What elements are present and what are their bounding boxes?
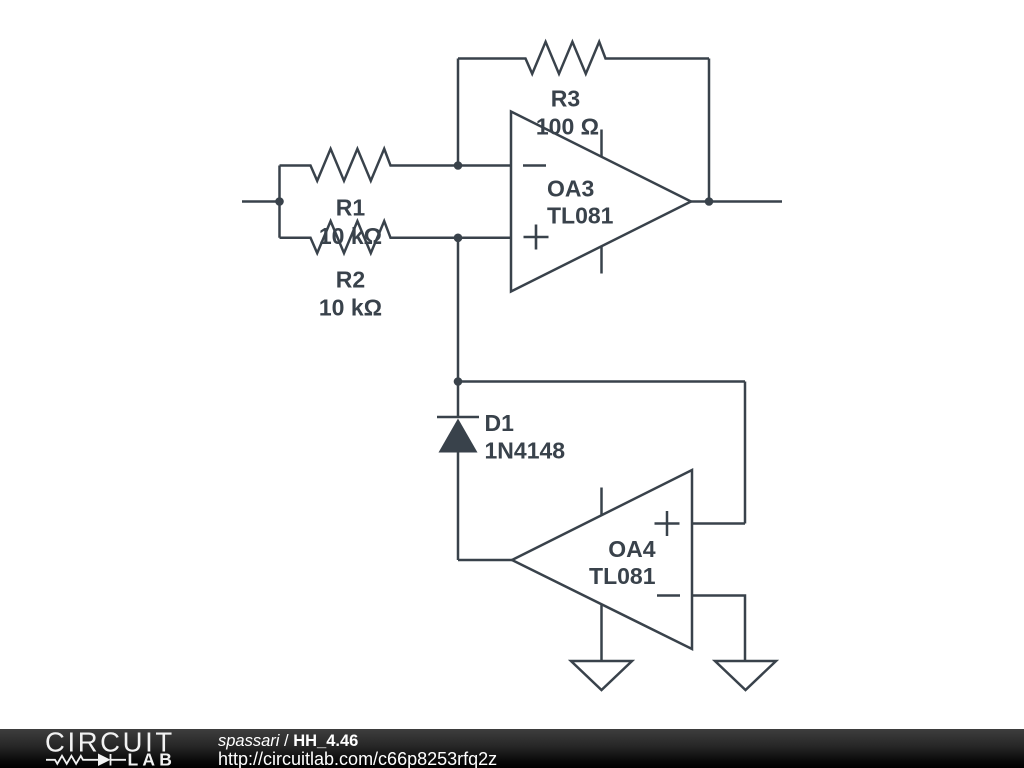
diode D1 [437, 417, 479, 453]
svg-text:D1: D1 [485, 410, 515, 436]
wire feedback right vertical [708, 59, 711, 202]
op-amp OA3 body [511, 112, 691, 292]
node B (R2 to non-inverting input) [454, 234, 463, 243]
svg-text:R1: R1 [336, 195, 366, 221]
op-amp OA3 plus sign [524, 225, 549, 250]
op-amp OA3 V- pin [600, 247, 603, 274]
op-amp OA3 minus sign [523, 164, 546, 167]
svg-text:OA4: OA4 [608, 536, 656, 562]
resistor R3 [458, 42, 709, 74]
svg-text:LAB: LAB [128, 750, 177, 768]
op-amp OA4 minus sign [657, 594, 680, 597]
op-amp OA4 V+ pin [600, 488, 603, 516]
labels [319, 86, 656, 590]
op-amp OA4 plus sign [655, 511, 680, 536]
wire input vertical [278, 166, 281, 238]
op-amp OA4 body [512, 470, 692, 649]
op-amp OA4 V- pin (to ground) [600, 604, 603, 661]
wire right vertical to OA4 + input [744, 382, 747, 524]
svg-text:R3: R3 [551, 86, 580, 112]
resistor R1 [280, 149, 459, 181]
wire middle vertical (non-inv node down) [457, 238, 460, 417]
resistor R2 [280, 221, 459, 253]
svg-text:OA3: OA3 [547, 176, 594, 202]
CircuitLab logo [0, 729, 200, 768]
ground GND2 [715, 661, 776, 690]
svg-text:1N4148: 1N4148 [485, 438, 566, 464]
wire OA4 output stub [458, 559, 512, 562]
node A (R1 to inverting input) [454, 161, 463, 170]
wire OA3 output [691, 200, 782, 203]
ground GND1 [571, 661, 632, 690]
svg-text:TL081: TL081 [547, 203, 614, 229]
wire feedback left vertical [457, 59, 460, 166]
wire OA4 + input [692, 522, 745, 525]
node input junction [275, 197, 284, 206]
wire input stub [242, 200, 280, 203]
wire node D horizontal [458, 380, 745, 383]
wire to OA3 non-inverting input [458, 237, 511, 240]
svg-text:TL081: TL081 [589, 563, 656, 589]
svg-text:10 kΩ: 10 kΩ [319, 223, 382, 249]
node output junction [705, 197, 714, 206]
svg-text:100 Ω: 100 Ω [536, 114, 599, 140]
footer text [217, 728, 219, 730]
svg-text:10 kΩ: 10 kΩ [319, 295, 382, 321]
svg-text:R2: R2 [336, 266, 365, 292]
footer bar [0, 729, 1024, 768]
wire diode to OA4 output [457, 453, 460, 561]
wire to OA3 inverting input [458, 164, 511, 167]
node D (to OA4 follower) [454, 377, 463, 386]
wire OA4 - input to ground [692, 596, 745, 662]
op-amp OA3 V+ pin [600, 130, 603, 157]
